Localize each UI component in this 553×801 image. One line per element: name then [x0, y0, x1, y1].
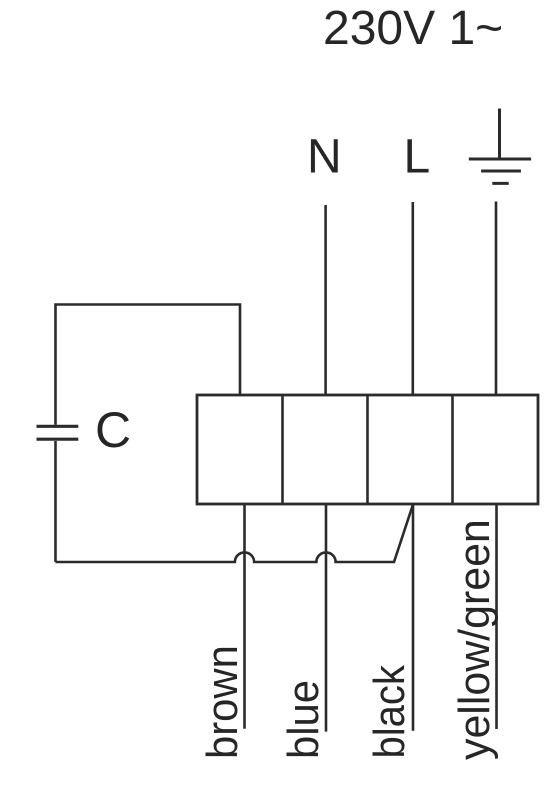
ground [469, 109, 531, 184]
svg-text:L: L [404, 131, 431, 184]
wire black [412, 504, 415, 731]
wire capacitor bottom with hops [56, 505, 414, 563]
svg-text:230V 1~: 230V 1~ [323, 2, 503, 55]
svg-text:brown: brown [198, 645, 247, 759]
svg-text:blue: blue [279, 680, 328, 759]
svg-text:N: N [307, 131, 342, 184]
wire L [411, 202, 414, 395]
wire capacitor bottom lead [54, 441, 57, 562]
terminal block X1 [197, 395, 538, 504]
terminal divider 1-2 [281, 395, 284, 504]
svg-text:yellow/green: yellow/green [451, 519, 500, 760]
wire blue [325, 504, 328, 732]
terminal divider 2-3 [366, 395, 369, 504]
wire N [324, 205, 327, 395]
capacitor C plates [37, 426, 79, 439]
terminal divider 3-4 [451, 395, 454, 504]
wire yellow/green [495, 504, 498, 729]
wire brown [243, 504, 246, 729]
svg-text:black: black [364, 664, 413, 758]
wire capacitor top loop [56, 305, 241, 425]
wire earth [495, 202, 498, 396]
svg-text:C: C [95, 402, 131, 458]
